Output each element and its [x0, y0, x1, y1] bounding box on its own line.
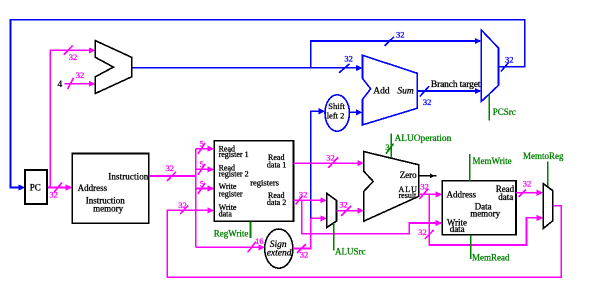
- svg-text:Address: Address: [78, 183, 108, 193]
- wire ALU result to Data memory Address: [419, 193, 441, 195]
- wire ALUSrc mux output to ALU input 2: [337, 210, 363, 212]
- wire PC+4 adder output to Add input 1: [132, 67, 361, 69]
- svg-text:16: 16: [255, 236, 264, 246]
- svg-text:32: 32: [300, 250, 309, 260]
- ALUOperation control line: [390, 134, 392, 159]
- PC box: [25, 170, 47, 204]
- shift left 2 ellipse: [325, 95, 349, 131]
- svg-text:Zero: Zero: [400, 170, 417, 180]
- MemRead control line: [470, 235, 472, 259]
- svg-text:data: data: [219, 210, 233, 219]
- wire Branch target (Add Sum output to PCSrc mux input 2): [417, 90, 480, 92]
- slash 32 on PC output: [54, 183, 62, 193]
- svg-text:Add: Add: [373, 87, 390, 97]
- svg-text:MemWrite: MemWrite: [473, 156, 512, 166]
- svg-text:32: 32: [420, 181, 429, 191]
- wire shift left 2 output to Add input 2: [349, 111, 361, 113]
- svg-text:32: 32: [76, 70, 85, 80]
- slash 32 on adder input 1: [64, 45, 73, 54]
- wire PC+4 branch up to PCSrc mux input 1: [311, 41, 480, 68]
- svg-text:PCSrc: PCSrc: [493, 107, 516, 117]
- slash 32 on constant 4 wire: [68, 78, 74, 89]
- svg-text:memory: memory: [470, 209, 500, 219]
- wire Instruction output to instruction bus: [149, 175, 196, 177]
- svg-text:Shift: Shift: [328, 101, 345, 111]
- svg-text:register 2: register 2: [219, 169, 249, 178]
- svg-text:32: 32: [423, 97, 432, 107]
- wire Read data 2 to ALUSrc mux input 1: [294, 199, 326, 201]
- svg-text:extend: extend: [267, 249, 292, 259]
- slash 32 on PCSrc mux output: [501, 63, 509, 72]
- wire MemtoReg mux output back to registers Write data: [167, 206, 561, 277]
- svg-text:32: 32: [523, 179, 532, 189]
- svg-text:32: 32: [49, 190, 58, 200]
- ALU: [364, 152, 419, 222]
- svg-text:registers: registers: [250, 177, 279, 187]
- svg-text:MemRead: MemRead: [472, 253, 510, 263]
- wire (blue) from junction up to shift left 2: [311, 111, 324, 218]
- adder Add (branch target adder): [363, 55, 418, 125]
- svg-text:register: register: [219, 189, 243, 198]
- svg-text:32: 32: [326, 153, 335, 163]
- svg-text:32: 32: [178, 200, 187, 210]
- mux MemtoReg: [543, 184, 553, 229]
- svg-text:left 2: left 2: [327, 111, 345, 121]
- svg-text:data: data: [498, 192, 513, 202]
- svg-text:RegWrite: RegWrite: [214, 228, 249, 238]
- svg-text:Address: Address: [447, 190, 477, 200]
- wire Read data 1 to ALU input 1: [294, 162, 363, 164]
- wire Read data output to MemtoReg mux input 1: [516, 192, 542, 194]
- data memory box: [442, 181, 516, 235]
- svg-text:data 1: data 1: [267, 160, 286, 169]
- svg-text:result: result: [399, 191, 418, 200]
- svg-text:data: data: [450, 224, 465, 234]
- svg-text:5: 5: [200, 159, 204, 169]
- slash 32 before Add input 1: [339, 64, 350, 73]
- svg-text:32: 32: [505, 55, 514, 65]
- svg-text:3: 3: [385, 142, 389, 152]
- wire ALU result branch around memory to MemtoReg mux input 2: [429, 194, 542, 245]
- instruction memory box: [72, 154, 149, 224]
- wire Read data 2 down and right to Data memory Write data: [302, 200, 441, 234]
- svg-text:32: 32: [339, 199, 348, 209]
- RegWrite control: [250, 222, 252, 239]
- svg-text:32: 32: [344, 54, 353, 64]
- adder PC+4: [95, 41, 131, 94]
- wire bus to Read register 2: [196, 168, 213, 170]
- wire PC-src loop (mux output right, up, across top, down left, into PC): [11, 20, 525, 188]
- slash 32 on PC+4 to PCSrc wire: [385, 37, 394, 46]
- svg-text:register 1: register 1: [219, 150, 249, 159]
- mux PCSrc: [481, 30, 498, 102]
- svg-text:Instruction: Instruction: [108, 171, 149, 181]
- wire constant 4 to PC+4 adder input 2: [65, 83, 95, 85]
- mux ALUSrc: [327, 193, 337, 227]
- svg-text:32: 32: [166, 163, 175, 173]
- slash 32 on Sum output: [420, 86, 429, 97]
- svg-text:4: 4: [58, 80, 63, 90]
- ALUSrc control line: [333, 223, 335, 250]
- svg-text:5: 5: [200, 138, 204, 148]
- wire sign extend output up to ALUSrc mux input 2: [293, 218, 326, 248]
- wire Zero output: [419, 175, 437, 177]
- wire bus to Read register 1: [196, 148, 213, 150]
- svg-text:32: 32: [418, 227, 427, 237]
- wire bus to Write register: [196, 188, 213, 190]
- wire bus to sign extend: [196, 246, 264, 248]
- svg-text:memory: memory: [93, 204, 123, 214]
- wire PC value up left side to PC+4 adder input 1: [50, 50, 94, 187]
- svg-text:32: 32: [396, 30, 405, 40]
- svg-text:ALUSrc: ALUSrc: [335, 247, 366, 257]
- svg-text:Branch target: Branch target: [431, 80, 481, 90]
- PCSrc control line: [488, 94, 490, 120]
- wire instruction bus vertical: [195, 149, 197, 248]
- svg-text:PC: PC: [30, 182, 41, 192]
- svg-text:MemtoReg: MemtoReg: [523, 151, 564, 161]
- slash 32 on instruction wire: [167, 172, 176, 181]
- registers box: [214, 141, 293, 222]
- svg-text:Sum: Sum: [397, 87, 414, 97]
- svg-text:32: 32: [69, 52, 78, 62]
- svg-text:data 2: data 2: [267, 198, 286, 207]
- svg-text:32: 32: [299, 190, 308, 200]
- sign extend ellipse: [265, 229, 293, 268]
- MemWrite control line: [469, 154, 471, 181]
- svg-text:5: 5: [200, 178, 204, 188]
- svg-text:ALUOperation: ALUOperation: [395, 134, 452, 144]
- wire PC output to instruction memory Address: [47, 187, 71, 189]
